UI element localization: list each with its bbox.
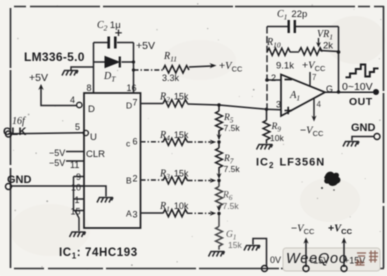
svg-text:2k: 2k: [323, 41, 333, 52]
op-amp A1 triangle: [281, 75, 325, 117]
inverting input marker: [285, 79, 293, 81]
resistor R3: [163, 177, 188, 184]
+15V terminal: [341, 266, 347, 272]
wire R4 to node: [188, 141, 212, 143]
capacitor C1 wires: [267, 26, 339, 28]
svg-text:7: 7: [312, 73, 317, 82]
wire -5V to pin 11: [66, 160, 84, 162]
wire R3 to node: [188, 180, 212, 182]
ground below G1: [209, 252, 225, 257]
ground at 0V branch: [244, 246, 260, 251]
diode DT: [105, 57, 119, 68]
wire pin16 node to R11: [134, 69, 164, 71]
arrow down into node C: [217, 173, 222, 179]
wire -5V to CLR pin 14: [66, 151, 84, 153]
svg-text:10k: 10k: [270, 133, 284, 143]
junction node output: [337, 90, 340, 93]
wire GND terminal to ground: [12, 186, 107, 197]
svg-text:+5V: +5V: [136, 40, 155, 52]
svg-text:1: 1: [75, 195, 80, 205]
svg-text:D: D: [88, 104, 95, 115]
svg-text:0V: 0V: [270, 255, 281, 265]
wire data-input chain pins 9 10 1 15: [74, 177, 85, 232]
svg-text:16: 16: [127, 83, 137, 93]
svg-text:GND: GND: [7, 174, 32, 186]
ground at LM336 anode: [71, 67, 94, 70]
svg-text:+15V: +15V: [344, 256, 365, 266]
wire op-amp output: [325, 91, 374, 93]
watermark box: [283, 248, 380, 271]
wire pin 7 stub: [141, 103, 164, 105]
svg-text:U: U: [90, 132, 97, 143]
svg-text:GND: GND: [351, 122, 376, 134]
svg-text:C122p: C122p: [277, 9, 307, 22]
svg-text:7.5k: 7.5k: [223, 201, 240, 211]
wire to inverting input pin 2: [267, 79, 281, 81]
svg-text:0~10V: 0~10V: [342, 81, 373, 93]
VR1 wiper arrow: [318, 38, 320, 44]
ground below R9: [257, 145, 273, 150]
wire right node vertical (+5V to pin 16): [133, 43, 135, 94]
capacitor C1 plates: [289, 20, 295, 33]
0V terminal: [262, 266, 268, 272]
CLK input terminal: [6, 131, 12, 137]
svg-text:8: 8: [87, 83, 92, 93]
svg-text:6: 6: [133, 137, 138, 147]
wire R10 to VR1: [290, 51, 299, 53]
ground below data pins: [70, 232, 86, 237]
svg-text:7.5k: 7.5k: [224, 164, 241, 174]
capacitor C2 plates: [109, 37, 116, 49]
resistor R6: [216, 181, 223, 210]
wire feedback right vertical: [338, 27, 340, 93]
svg-text:LM336-5.0: LM336-5.0: [24, 50, 85, 64]
wire +5V arrow to pin 4: [41, 87, 77, 106]
svg-text:7: 7: [133, 98, 138, 108]
svg-text:CLR: CLR: [86, 149, 105, 160]
wire R1 to node: [188, 212, 212, 214]
wire GND right to ground: [352, 137, 374, 141]
svg-text:−15V: −15V: [308, 256, 329, 266]
svg-text:A: A: [126, 209, 132, 219]
resistor R5: [216, 105, 223, 135]
svg-text:7.5k: 7.5k: [224, 123, 241, 133]
resistor R11: [163, 66, 189, 74]
junction node VR1 output: [337, 50, 341, 54]
GND input terminal: [6, 184, 12, 190]
resistor R2: [163, 100, 188, 107]
-15V terminal: [303, 266, 309, 272]
capacitor C2 top wire: [94, 42, 134, 44]
svg-text:−5V: −5V: [49, 148, 65, 158]
resistor R7: [216, 142, 223, 171]
ink blot: [324, 172, 340, 186]
junction node row4: [217, 212, 220, 215]
wire pin 2 stub: [141, 179, 164, 181]
svg-text:2: 2: [271, 73, 276, 83]
non-inverting input marker: [285, 107, 293, 114]
pin 7 supply stub: [309, 72, 311, 86]
svg-text:IC2LF356N: IC2LF356N: [256, 157, 325, 171]
wire CLK to pin 5: [12, 132, 84, 135]
svg-text:4: 4: [70, 95, 75, 105]
junction node at +5V corner: [132, 60, 135, 63]
potentiometer VR1: [299, 48, 322, 55]
junction node row3: [217, 179, 220, 182]
IC1 74HC193 body: [84, 93, 141, 228]
arrow down into node D: [217, 206, 222, 212]
pin 4 bubble: [77, 102, 82, 107]
resistor R10: [267, 48, 290, 55]
watermark CJK glyphs: [356, 251, 379, 266]
svg-text:3.3k: 3.3k: [162, 73, 180, 83]
resistor G1 terminator: [216, 214, 223, 250]
0V branch wire: [253, 239, 267, 268]
svg-text:2: 2: [133, 174, 138, 184]
wire feedback left vertical: [266, 27, 268, 110]
svg-text:B: B: [126, 176, 132, 186]
capacitor C2 polarity plus: [115, 30, 122, 37]
pin 5 bubble: [83, 130, 88, 135]
ground right: [343, 142, 359, 147]
ground at GND wire: [97, 198, 113, 203]
svg-text:OUT: OUT: [349, 96, 373, 108]
diode DT wires: [94, 61, 134, 63]
svg-text:4: 4: [317, 100, 322, 109]
junction node ladder top: [217, 103, 220, 106]
wire left node vertical (pin 8 net): [93, 43, 95, 94]
staircase waveform: [346, 65, 379, 78]
GND output terminal: [374, 134, 380, 140]
wire R11 to +Vcc: [189, 66, 212, 67]
+15V riser wire: [343, 241, 345, 267]
svg-text:CLK: CLK: [3, 126, 27, 138]
svg-text:9.1k: 9.1k: [276, 61, 294, 72]
resistor R1: [163, 210, 188, 217]
svg-text:9: 9: [76, 172, 81, 182]
-15V riser wire: [305, 241, 307, 267]
svg-text:D: D: [126, 101, 132, 111]
resistor R4: [163, 138, 188, 145]
svg-text:10: 10: [71, 183, 81, 193]
svg-text:−5V: −5V: [49, 158, 65, 168]
wire pin 6 stub: [141, 141, 164, 143]
svg-text:IC1: 74HC193: IC1: 74HC193: [59, 247, 138, 261]
pin 4 supply stub: [313, 99, 315, 120]
wire VR1 to output node: [320, 51, 339, 52]
arrow down into node B: [217, 134, 222, 140]
svg-text:5: 5: [75, 122, 80, 132]
svg-text:3: 3: [276, 100, 281, 110]
svg-text:3: 3: [133, 210, 138, 220]
resistor R9: [265, 108, 268, 111]
svg-text:15k: 15k: [228, 240, 242, 250]
wire R2 to opamp input: [188, 104, 281, 110]
wire pin 3 stub: [141, 212, 164, 214]
junction node pin 2 corner: [265, 78, 269, 82]
junction node R11 row: [132, 68, 135, 71]
junction node row2: [217, 140, 220, 143]
svg-text:+5V: +5V: [29, 72, 48, 84]
svg-text:11: 11: [70, 160, 79, 170]
svg-text:15: 15: [71, 207, 81, 217]
output terminal: [373, 89, 379, 95]
